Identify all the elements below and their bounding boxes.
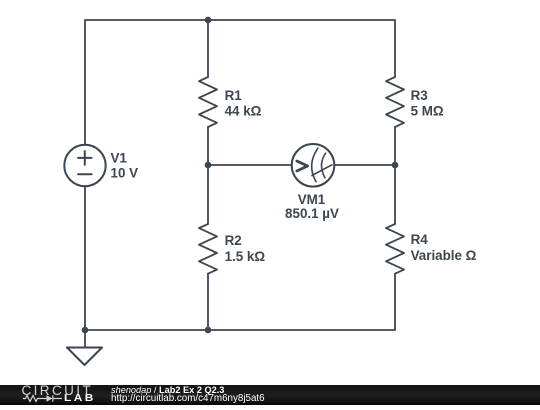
svg-text:Variable Ω: Variable Ω <box>411 248 477 263</box>
wire R4 to bottom rail <box>394 274 396 330</box>
footer attribution line 2 <box>111 394 265 403</box>
voltmeter VM1 <box>292 144 335 187</box>
svg-text:850.1 µV: 850.1 µV <box>285 206 339 221</box>
footer bar <box>0 385 540 406</box>
node top junction <box>205 17 212 24</box>
wire R1 to node A <box>207 127 209 224</box>
resistor R4 <box>386 224 404 274</box>
wire R2 to bottom rail <box>207 274 209 330</box>
CircuitLab logo LAB <box>64 393 96 403</box>
node A junction <box>205 162 212 169</box>
svg-text:R3: R3 <box>411 88 428 103</box>
node B junction <box>392 162 399 169</box>
resistor R2 <box>199 224 217 274</box>
svg-text:5 MΩ: 5 MΩ <box>411 104 444 119</box>
voltage source V1 <box>64 145 105 186</box>
CircuitLab logo wordmark <box>22 385 94 397</box>
CircuitLab logo schematic glyph <box>23 394 67 403</box>
wire bottom rail <box>85 186 395 330</box>
resistor R3 <box>386 77 404 127</box>
svg-text:44 kΩ: 44 kΩ <box>225 104 262 119</box>
node ground-mid junction <box>205 327 212 334</box>
node ground-left junction <box>82 327 89 334</box>
svg-text:R2: R2 <box>225 233 242 248</box>
ground <box>67 330 102 365</box>
svg-text:R1: R1 <box>225 88 243 103</box>
svg-text:V1: V1 <box>111 151 128 166</box>
svg-text:R4: R4 <box>411 232 429 247</box>
footer attribution line 1 <box>111 386 224 395</box>
svg-text:10 V: 10 V <box>111 166 139 181</box>
wire voltmeter to node B <box>334 164 395 166</box>
wire top rail <box>85 20 395 145</box>
wire middle branch top <box>207 20 209 77</box>
resistor R1 <box>199 77 217 127</box>
wire R3 to node B <box>394 127 396 224</box>
wire node A to voltmeter <box>208 164 292 166</box>
svg-text:1.5 kΩ: 1.5 kΩ <box>225 249 266 264</box>
svg-text:VM1: VM1 <box>298 192 326 207</box>
